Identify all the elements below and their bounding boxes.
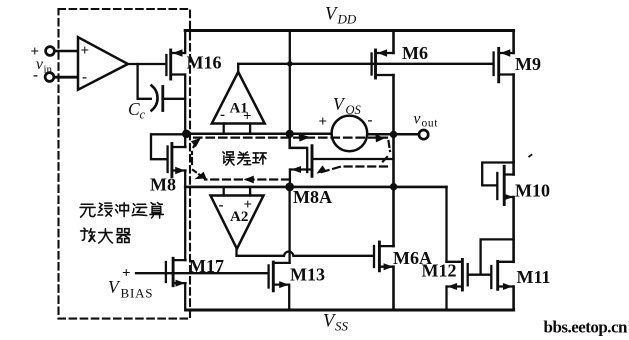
- svg-text:M12: M12: [422, 261, 457, 281]
- wire input +: [55, 50, 78, 53]
- node dot vout: [390, 131, 397, 138]
- svg-text:in: in: [44, 64, 53, 76]
- wire M13 drain riser x=289.5: [288, 187, 291, 310]
- svg-text:-: -: [33, 68, 38, 84]
- amplifier A2: [211, 187, 264, 249]
- VDD rail: [185, 29, 513, 32]
- arrow top-left pointing up-right: [191, 138, 201, 147]
- transistor M8A: [290, 135, 394, 187]
- label VOS: [333, 94, 362, 117]
- svg-text:BIAS: BIAS: [121, 286, 154, 301]
- svg-text:SS: SS: [335, 319, 349, 334]
- svg-text:M8A: M8A: [293, 187, 332, 207]
- wire left column x=185 segments: [184, 31, 186, 311]
- svg-text:M13: M13: [290, 265, 325, 285]
- wire op-amp output: [128, 63, 166, 65]
- node dot M8 gate: [182, 130, 191, 139]
- label error loop (误差环): [223, 152, 266, 165]
- svg-text:+: +: [81, 43, 90, 59]
- capacitor C1 wires: [138, 64, 186, 99]
- svg-text:+: +: [122, 266, 131, 282]
- label Cc: [128, 99, 146, 122]
- node dot center: [286, 130, 294, 138]
- svg-text:-: -: [219, 198, 224, 214]
- wire right column x=513.6: [512, 31, 515, 311]
- vout terminal: [419, 130, 428, 139]
- error loop left side: [192, 142, 204, 178]
- svg-text:-: -: [220, 107, 225, 123]
- transistor M6A: [374, 242, 394, 271]
- transistor M17: [166, 258, 186, 286]
- amplifier A1: [212, 64, 265, 133]
- svg-text:+: +: [243, 109, 252, 125]
- dashed box (unbuffered op-amp boundary): [59, 9, 191, 319]
- input terminal +: [46, 47, 55, 56]
- error loop right descender: [382, 141, 391, 163]
- svg-text:M8: M8: [150, 175, 176, 195]
- arrow right-diagonal pointing down-left: [317, 165, 327, 173]
- junction dots: [182, 61, 397, 191]
- svg-text:+: +: [31, 44, 40, 60]
- label vout: [414, 111, 439, 130]
- transistor M10: [497, 166, 514, 204]
- node dot M6A: [390, 183, 397, 190]
- svg-text:+: +: [319, 114, 328, 130]
- input terminal -: [45, 73, 54, 82]
- svg-text:DD: DD: [337, 12, 357, 27]
- svg-text:M9: M9: [515, 54, 541, 74]
- plus minus signs: [31, 43, 373, 282]
- svg-text:v: v: [414, 111, 421, 128]
- wire A2 output to M6A gate with hop: [237, 249, 373, 256]
- wire A1/M6/M9 gate line y=64: [238, 63, 492, 65]
- wire rail drop x=290: [289, 31, 291, 135]
- transistor M9: [494, 48, 514, 81]
- node dot A2: [285, 183, 294, 192]
- wire input -: [54, 76, 77, 79]
- arrow mid-top pointing right: [299, 134, 311, 142]
- scan tick mark: [529, 154, 533, 157]
- transistor M16: [166, 49, 184, 79]
- svg-text:M11: M11: [517, 267, 551, 287]
- voltage source VOS circle: [332, 116, 368, 152]
- svg-text:-: -: [368, 113, 373, 129]
- svg-text:M17: M17: [189, 256, 224, 276]
- svg-text:V: V: [108, 277, 121, 297]
- transistor M11: [491, 261, 513, 290]
- svg-text:+: +: [244, 197, 253, 213]
- svg-text:V: V: [333, 94, 346, 114]
- label VDD: [325, 5, 357, 27]
- error loop bottom line: [205, 178, 289, 180]
- label 放大器: [81, 228, 130, 243]
- error loop bottom right segment: [320, 167, 387, 173]
- error loop arrowheads: [191, 134, 385, 184]
- arrow right-top pointing right: [375, 134, 384, 142]
- VSS rail: [186, 309, 514, 312]
- svg-text:M10: M10: [515, 181, 550, 201]
- wire VBIAS/M17/M13 gate line y=273: [136, 272, 267, 274]
- capacitor Cc curved plate: [152, 86, 158, 111]
- svg-text:C: C: [128, 99, 140, 119]
- svg-text:out: out: [422, 118, 439, 130]
- error loop dashed top line: [194, 137, 387, 139]
- transistor M12: [447, 259, 468, 290]
- op-amp U1 triangle: [78, 37, 128, 89]
- label vin: [36, 56, 53, 76]
- capacitor Cc straight plate: [161, 87, 164, 111]
- svg-text:c: c: [140, 108, 146, 122]
- svg-text:bbs.eetop.cn: bbs.eetop.cn: [544, 318, 629, 337]
- wire M10 diode loop: [482, 163, 514, 186]
- arrow bottom pointing left: [244, 176, 254, 184]
- wire long horizontal y=187: [185, 186, 446, 189]
- wire M12 drain riser x=446.5: [445, 187, 447, 310]
- transistor M13: [269, 262, 290, 291]
- transistor M8: [151, 134, 186, 176]
- node A horizontal wire y=134: [186, 132, 419, 135]
- transistor M6: [372, 49, 394, 78]
- svg-text:M6: M6: [402, 43, 428, 63]
- svg-text:OS: OS: [346, 103, 362, 117]
- wire column x=393.5: [392, 31, 395, 311]
- wire M11/M12 gate wire and M11 diode loop: [469, 239, 514, 274]
- label VSS: [323, 312, 349, 334]
- label VBIAS: [108, 277, 153, 301]
- svg-text:-: -: [82, 70, 87, 86]
- node dot gate line: [287, 61, 292, 66]
- svg-text:M16: M16: [187, 53, 222, 73]
- arrow bottom-left pointing down-left: [195, 172, 207, 179]
- label 无缓冲运算: [80, 203, 163, 218]
